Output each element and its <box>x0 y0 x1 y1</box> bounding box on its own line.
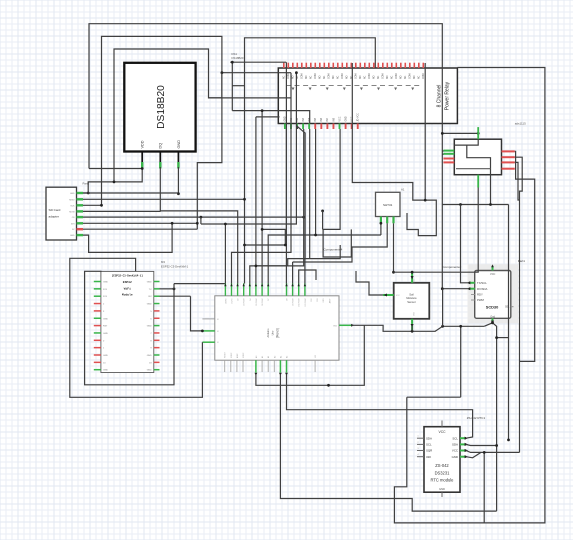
svg-text:SCD30: SCD30 <box>486 304 499 309</box>
svg-text:Moisture: Moisture <box>406 296 417 300</box>
svg-text:Uno: Uno <box>271 330 275 335</box>
svg-text:GND: GND <box>147 370 152 372</box>
svg-text:D9 PWM: D9 PWM <box>293 298 295 306</box>
svg-text:A1: A1 <box>261 356 264 358</box>
svg-text:SD Card: SD Card <box>49 208 61 212</box>
svg-text:ESP32-C3-DevKitM-1: ESP32-C3-DevKitM-1 <box>161 264 189 268</box>
svg-text:NO: NO <box>293 75 295 79</box>
svg-text:NC: NC <box>378 75 380 79</box>
svg-text:GND: GND <box>103 282 108 284</box>
svg-text:TX/SCL: TX/SCL <box>477 281 487 285</box>
svg-text:D4: D4 <box>250 299 252 301</box>
svg-text:GND: GND <box>345 116 347 121</box>
svg-text:SCK: SCK <box>70 205 75 207</box>
svg-text:D13: D13 <box>317 298 319 301</box>
svg-text:ZS-042 RTC1: ZS-042 RTC1 <box>467 416 486 420</box>
svg-text:NO: NO <box>374 75 376 79</box>
svg-text:JD-VCC: JD-VCC <box>358 113 360 122</box>
svg-text:4: 4 <box>418 454 419 456</box>
svg-text:D8: D8 <box>287 299 289 301</box>
svg-text:(Rev3): (Rev3) <box>276 328 280 338</box>
svg-text:SDA: SDA <box>452 443 458 447</box>
svg-text:RX/SDA: RX/SDA <box>477 287 488 291</box>
svg-text:A5: A5 <box>286 356 289 358</box>
svg-text:RX: RX <box>149 296 153 298</box>
svg-text:NO: NO <box>360 75 362 79</box>
svg-text:NC: NC <box>419 75 421 79</box>
svg-text:Arduino: Arduino <box>266 328 270 337</box>
svg-text:NO: NO <box>333 75 335 79</box>
svg-text:GND: GND <box>147 326 152 328</box>
svg-text:COM: COM <box>410 74 412 79</box>
svg-text:SQR: SQR <box>426 449 432 453</box>
svg-text:VCC: VCC <box>339 116 341 121</box>
svg-text:VDD: VDD <box>141 140 145 148</box>
svg-text:Sensor: Sensor <box>407 300 416 304</box>
svg-text:Componente2: Componente2 <box>443 265 462 269</box>
svg-text:SDA: SDA <box>426 436 432 440</box>
svg-text:GND: GND <box>323 298 325 303</box>
svg-text:D1/TX: D1/TX <box>232 298 234 304</box>
svg-text:DS3231: DS3231 <box>435 470 451 475</box>
svg-text:COM: COM <box>342 74 344 79</box>
svg-text:RESET: RESET <box>225 351 227 358</box>
svg-text:DQ: DQ <box>159 143 163 149</box>
svg-text:GND: GND <box>70 193 75 195</box>
svg-text:RDY: RDY <box>477 293 483 297</box>
svg-text:NO: NO <box>414 75 416 79</box>
svg-text:NO: NO <box>347 75 349 79</box>
svg-text:D2: D2 <box>238 299 240 301</box>
svg-text:WiFi: WiFi <box>124 286 131 290</box>
svg-text:NC: NC <box>284 75 286 79</box>
svg-text:Gnd: Gnd <box>490 315 495 318</box>
svg-text:GND: GND <box>70 235 75 237</box>
svg-text:MISO: MISO <box>69 199 75 201</box>
svg-text:Module: Module <box>122 293 133 297</box>
svg-text:1: 1 <box>418 436 419 438</box>
svg-text:D7: D7 <box>268 299 270 301</box>
svg-text:VCC: VCC <box>439 430 447 434</box>
svg-text:GND: GND <box>147 304 152 306</box>
svg-text:COM: COM <box>356 74 358 79</box>
svg-text:COM: COM <box>383 74 385 79</box>
svg-text:SCL: SCL <box>426 443 432 447</box>
svg-text:NO: NO <box>320 75 322 79</box>
svg-text:NC: NC <box>392 75 394 79</box>
svg-text:D11 PWM: D11 PWM <box>305 298 307 307</box>
svg-text:D10 PWM: D10 PWM <box>299 298 301 307</box>
svg-text:COM: COM <box>302 74 304 79</box>
svg-text:A0: A0 <box>255 356 258 358</box>
svg-text:Power Relay: Power Relay <box>445 81 451 110</box>
svg-text:IOREF: IOREF <box>231 352 233 358</box>
svg-text:SHT31: SHT31 <box>383 203 393 207</box>
svg-text:32K: 32K <box>426 455 431 459</box>
svg-text:GND: GND <box>333 325 338 327</box>
svg-text:COM: COM <box>329 74 331 79</box>
svg-text:[ESP32-C3-DevKitM-1]: [ESP32-C3-DevKitM-1] <box>112 274 144 278</box>
svg-text:VCC: VCC <box>490 273 495 276</box>
svg-text:COM: COM <box>369 74 371 79</box>
svg-text:D3 PWM: D3 PWM <box>244 298 246 306</box>
svg-text:SCL: SCL <box>452 436 458 440</box>
svg-text:SEL: SEL <box>505 306 510 309</box>
svg-text:NC: NC <box>405 75 407 79</box>
svg-text:DS18B20: DS18B20 <box>232 56 244 60</box>
svg-text:NO: NO <box>387 75 389 79</box>
svg-text:GND: GND <box>452 455 458 459</box>
svg-text:GND: GND <box>103 318 108 320</box>
svg-text:3: 3 <box>418 448 419 450</box>
svg-text:DS18B20: DS18B20 <box>156 85 167 129</box>
svg-text:ads1115: ads1115 <box>515 122 526 126</box>
svg-text:A4: A4 <box>279 356 282 358</box>
svg-text:A2: A2 <box>267 356 270 358</box>
svg-text:2: 2 <box>418 442 419 444</box>
svg-text:MOSI: MOSI <box>69 211 75 213</box>
svg-text:GND: GND <box>414 311 416 316</box>
svg-text:GND: GND <box>103 333 108 335</box>
svg-text:NC: NC <box>338 75 340 79</box>
svg-text:VCC: VCC <box>452 449 458 453</box>
svg-text:D12: D12 <box>311 298 313 301</box>
svg-text:GND: GND <box>147 355 152 357</box>
svg-text:NO: NO <box>306 75 308 79</box>
svg-text:IOREF: IOREF <box>243 352 245 358</box>
svg-text:COM: COM <box>288 74 290 79</box>
svg-text:D6 PWM: D6 PWM <box>262 298 264 306</box>
svg-text:GND: GND <box>103 355 108 357</box>
svg-text:adapter: adapter <box>49 215 60 219</box>
svg-text:COM: COM <box>315 74 317 79</box>
svg-text:ZS-042: ZS-042 <box>435 463 449 468</box>
svg-text:ESP32: ESP32 <box>123 281 132 284</box>
svg-text:NC: NC <box>311 75 313 79</box>
svg-text:NC: NC <box>365 75 367 79</box>
svg-text:Soil: Soil <box>409 293 414 297</box>
svg-text:RST: RST <box>103 326 108 328</box>
svg-text:RTC module: RTC module <box>431 478 455 483</box>
svg-text:A3: A3 <box>273 356 276 358</box>
svg-text:D0/RX: D0/RX <box>225 298 227 304</box>
svg-text:PWM: PWM <box>477 298 485 302</box>
svg-text:A1: A1 <box>401 188 405 192</box>
svg-text:NC: NC <box>324 75 326 79</box>
svg-text:GND: GND <box>103 370 108 372</box>
svg-text:GND: GND <box>177 140 181 149</box>
svg-text:NO: NO <box>401 75 403 79</box>
svg-text:GND: GND <box>147 282 152 284</box>
svg-text:COM: COM <box>396 74 398 79</box>
svg-text:8 Channel: 8 Channel <box>437 85 443 108</box>
svg-text:NC: NC <box>297 75 299 79</box>
svg-text:GND: GND <box>439 487 445 491</box>
svg-text:D5 PWM: D5 PWM <box>256 298 258 306</box>
